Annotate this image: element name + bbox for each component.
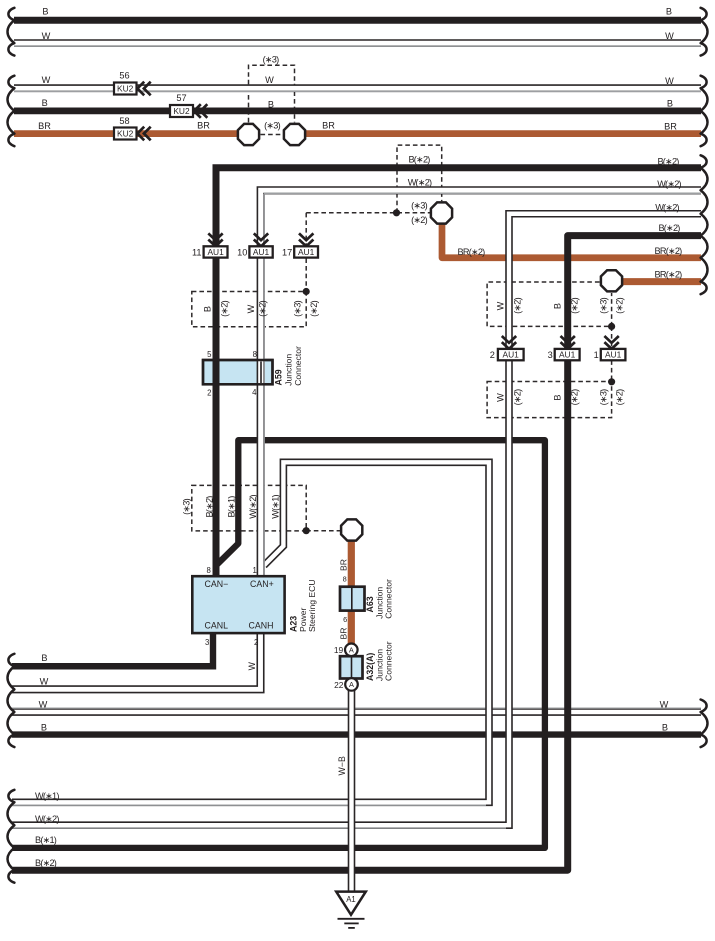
shield octagon on BR bus (left) [238, 124, 259, 145]
connector AU1 pin 2 [502, 336, 516, 349]
svg-text:W: W [42, 75, 51, 85]
wire B top bus [14, 17, 701, 24]
svg-text:A23: A23 [289, 616, 299, 632]
wire B from A23 pin 3 to left edge [12, 633, 213, 666]
svg-text:(∗3): (∗3) [411, 201, 427, 211]
junction connector A59 border (over wires) [203, 360, 273, 384]
svg-text:(∗3): (∗3) [599, 297, 609, 313]
connector ring A32(A) pin 22 [345, 678, 358, 691]
wire (*3)/(*2) dashed horizontal into octagon [306, 212, 430, 214]
svg-text:(∗3): (∗3) [182, 498, 192, 514]
svg-text:B: B [42, 98, 48, 108]
svg-text:BR: BR [338, 628, 348, 640]
svg-text:B: B [41, 723, 47, 733]
svg-text:W(∗2): W(∗2) [657, 179, 681, 189]
junction dot at A23 label box corner [303, 527, 310, 534]
divider line of junction connector A32(A) [351, 658, 353, 678]
shield octagon on BR bus (right) [284, 124, 305, 145]
connector KU2 no.57 [170, 105, 193, 117]
svg-text:11: 11 [192, 247, 202, 257]
connector KU2 no.58 [114, 128, 137, 140]
label box for AU1 2/3/1 wire colours (lower) [487, 382, 611, 418]
svg-text:Steering ECU: Steering ECU [307, 579, 317, 632]
svg-text:2: 2 [490, 350, 495, 360]
svg-text:Connector: Connector [384, 641, 394, 681]
svg-text:B(∗2): B(∗2) [408, 155, 430, 165]
connector AU1 pin 1 [604, 336, 618, 349]
ECU A23 Power Steering ECU body [192, 576, 284, 633]
svg-text:10: 10 [237, 247, 247, 257]
svg-text:B(∗1): B(∗1) [35, 835, 57, 845]
svg-text:BR: BR [322, 121, 335, 131]
svg-text:B: B [41, 653, 47, 663]
svg-text:B(∗2): B(∗2) [657, 157, 679, 167]
svg-text:56: 56 [119, 71, 129, 81]
junction connector A32(A) body [340, 656, 363, 678]
svg-text:W(∗2): W(∗2) [248, 494, 258, 518]
wire (*3)/(*2) dashed drop to connector AU1-17 [305, 213, 307, 292]
connector AU1 pin 10 [254, 233, 268, 246]
svg-text:CANL: CANL [205, 621, 229, 631]
svg-text:BR: BR [38, 121, 51, 131]
svg-text:B(∗1): B(∗1) [227, 496, 237, 518]
junction dot at upper right label box corner [608, 323, 615, 330]
svg-text:B: B [42, 7, 48, 17]
svg-text:W: W [246, 304, 256, 313]
junction dot at lower right label box corner [608, 378, 615, 385]
junction dot at AU1-17 label box corner [303, 288, 310, 295]
connector AU1 pin 3 [561, 336, 575, 349]
wire W-B from A32(A) pin 22 to ground A1 [348, 690, 356, 891]
svg-text:A: A [349, 646, 354, 655]
ground symbol A1 [336, 892, 366, 928]
svg-text:W: W [247, 661, 257, 670]
dashed variant box (*3) above octagons on BR bus [249, 65, 295, 122]
wire (*3) dashed link between shield octagons [261, 134, 283, 136]
connector AU1 pin 11 [208, 233, 222, 246]
svg-text:(∗3): (∗3) [293, 300, 303, 316]
svg-text:B: B [662, 723, 668, 733]
svg-text:AU1: AU1 [559, 350, 576, 360]
svg-text:W: W [265, 75, 274, 85]
shield octagon at BR(*2) lower [601, 270, 622, 291]
svg-text:1: 1 [252, 566, 256, 575]
svg-text:19: 19 [334, 645, 344, 655]
svg-text:(∗3): (∗3) [264, 120, 280, 130]
svg-text:(∗2): (∗2) [258, 300, 268, 316]
wire B(*1): A23 pin 8 loop to bottom-left bus [12, 440, 545, 848]
svg-text:W(∗2): W(∗2) [408, 178, 432, 188]
svg-text:KU2: KU2 [173, 106, 190, 116]
svg-text:1: 1 [594, 350, 599, 360]
svg-text:BR: BR [664, 122, 677, 132]
svg-text:W(∗2): W(∗2) [35, 814, 59, 824]
wire BR(*2) from shield octagon, lower [620, 278, 701, 285]
svg-text:8: 8 [206, 566, 210, 575]
svg-text:AU1: AU1 [207, 247, 224, 257]
svg-text:(∗2): (∗2) [513, 297, 523, 313]
connector KU2 no.56 [114, 83, 137, 95]
svg-text:3: 3 [548, 350, 553, 360]
svg-text:CAN−: CAN− [205, 579, 229, 589]
junction connector A63 body [340, 587, 365, 611]
svg-text:57: 57 [176, 93, 186, 103]
wire W from A23 pin 2 to left edge [12, 633, 261, 689]
svg-text:B: B [667, 99, 673, 109]
connector ring A32(A) pin 19 [345, 644, 358, 657]
wire B(*2): right drop AU1-3 to bottom-left bus [12, 236, 701, 871]
wire B (KU2 57 row) [14, 108, 701, 115]
svg-text:A63: A63 [365, 596, 375, 612]
svg-text:A: A [349, 680, 354, 689]
junction connector A59 body [203, 360, 273, 384]
svg-text:(∗2): (∗2) [615, 297, 625, 313]
svg-text:AU1: AU1 [503, 350, 520, 360]
svg-text:W: W [496, 393, 506, 402]
wire W(*2) bus to AU1-10 and A23 pin 1 [261, 190, 701, 577]
svg-text:Junction: Junction [284, 354, 294, 386]
svg-text:B: B [268, 100, 274, 110]
svg-text:4: 4 [252, 388, 257, 397]
wire W(*1): A23 pin 1 loop to bottom-left bus [12, 462, 489, 805]
svg-text:W−B: W−B [337, 756, 347, 775]
svg-text:W: W [660, 700, 669, 710]
dashed variant box above octagon for B(*2)/W(*2) drop [397, 145, 442, 213]
label box for AU1 11/10/17 wire colours [192, 292, 306, 327]
wire W mid bus (full width) [12, 708, 701, 712]
svg-text:(∗3): (∗3) [599, 389, 609, 405]
svg-text:17: 17 [282, 247, 292, 257]
svg-text:A1: A1 [346, 895, 356, 904]
svg-text:KU2: KU2 [117, 129, 134, 139]
svg-text:CANH: CANH [249, 621, 274, 631]
wire W(*2): right drop AU1-2 to bottom-left bus [12, 214, 701, 828]
svg-text:W: W [665, 31, 674, 41]
svg-text:AU1: AU1 [298, 247, 315, 257]
wire BR(*2) from shield octagon, upper [442, 223, 701, 258]
wire BR (KU2 58 row), broken between shield octagons [14, 130, 242, 137]
svg-text:KU2: KU2 [117, 84, 134, 94]
wire BR from A63 pin 6 to A32(A) pin 19 [348, 609, 355, 645]
svg-text:W(∗2): W(∗2) [655, 203, 679, 213]
svg-text:W: W [665, 76, 674, 86]
svg-text:W: W [496, 301, 506, 310]
svg-text:8: 8 [253, 350, 257, 359]
svg-text:A59: A59 [274, 369, 284, 385]
svg-text:Connector: Connector [384, 579, 394, 619]
svg-text:B: B [666, 7, 672, 17]
wire (*3)/(*2) dashed segment AU1-1 to lower box [611, 360, 613, 381]
svg-text:22: 22 [334, 680, 344, 690]
svg-text:BR: BR [197, 121, 210, 131]
svg-text:(∗2): (∗2) [309, 300, 319, 316]
svg-text:BR: BR [338, 559, 348, 571]
svg-text:3: 3 [205, 638, 209, 647]
shield octagon at A63 branch [341, 519, 362, 540]
svg-text:AU1: AU1 [253, 247, 270, 257]
wire B mid bus (full width) [12, 731, 701, 737]
torn edges left [8, 8, 15, 883]
junction dot on dashed wire near octagon [393, 209, 400, 216]
shield octagon at BR(*2) upper [431, 202, 452, 223]
svg-text:AU1: AU1 [605, 350, 622, 360]
svg-text:(∗2): (∗2) [570, 389, 580, 405]
wire (*3)/(*2) dashed link to shield octagon at A23 [306, 530, 340, 532]
svg-text:5: 5 [207, 350, 212, 359]
svg-text:B: B [203, 306, 213, 312]
svg-text:(∗2): (∗2) [513, 389, 523, 405]
wire B(*2) bus to AU1-11 and A23 pin 8 [216, 168, 701, 578]
label box for AU1 2/3/1 wire colours (upper) [487, 282, 611, 326]
svg-text:B: B [553, 394, 563, 400]
svg-text:2: 2 [207, 388, 211, 397]
svg-text:W(∗1): W(∗1) [35, 791, 59, 801]
svg-text:(∗3): (∗3) [263, 55, 279, 65]
svg-text:BR(∗2): BR(∗2) [655, 270, 683, 280]
svg-text:W: W [39, 700, 48, 710]
torn edges right [701, 8, 708, 747]
divider lines of junction connector A59 [214, 362, 216, 384]
connector AU1 pin 17 [299, 233, 313, 246]
svg-text:W: W [40, 677, 49, 687]
svg-text:BR(∗2): BR(∗2) [458, 247, 486, 257]
svg-text:Connector: Connector [293, 346, 303, 386]
svg-text:(∗2): (∗2) [220, 300, 230, 316]
wire W (KU2 56 row) [14, 88, 701, 91]
svg-text:CAN+: CAN+ [250, 579, 274, 589]
divider line of junction connector A63 [351, 588, 353, 610]
wire (*3)/(*2) dashed drop octagon to AU1-1 [611, 326, 613, 349]
svg-text:(∗2): (∗2) [411, 215, 427, 225]
svg-text:B(∗2): B(∗2) [658, 223, 680, 233]
svg-text:BR(∗2): BR(∗2) [655, 246, 683, 256]
svg-text:6: 6 [343, 615, 347, 624]
svg-text:8: 8 [343, 575, 347, 584]
svg-text:(∗2): (∗2) [615, 389, 625, 405]
svg-text:(∗2): (∗2) [570, 297, 580, 313]
wire W top bus [14, 43, 701, 46]
label box for A23 input wire colours [192, 485, 306, 531]
wire BR from shield octagon to A63 pin 8 [348, 535, 355, 588]
svg-text:W: W [42, 31, 51, 41]
svg-text:B: B [553, 303, 563, 309]
svg-text:2: 2 [254, 638, 258, 647]
svg-text:A32(A): A32(A) [365, 653, 375, 681]
svg-text:58: 58 [119, 116, 129, 126]
svg-text:W(∗1): W(∗1) [271, 494, 281, 518]
svg-text:B(∗2): B(∗2) [35, 858, 57, 868]
svg-text:B(∗2): B(∗2) [205, 496, 215, 518]
